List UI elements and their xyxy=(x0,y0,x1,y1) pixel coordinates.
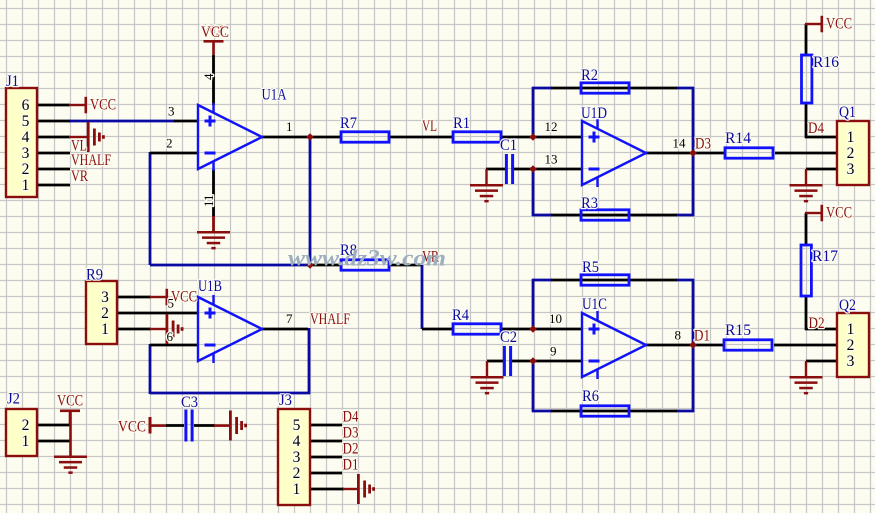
svg-text:U1B: U1B xyxy=(198,278,222,295)
svg-text:2: 2 xyxy=(166,135,173,150)
svg-text:R1: R1 xyxy=(453,115,470,132)
svg-text:VCC: VCC xyxy=(57,393,83,410)
svg-text:8: 8 xyxy=(675,327,682,342)
svg-text:D3: D3 xyxy=(343,425,359,442)
svg-text:2: 2 xyxy=(22,161,30,178)
svg-text:3: 3 xyxy=(101,289,109,306)
svg-text:14: 14 xyxy=(673,135,687,150)
svg-text:VL: VL xyxy=(422,118,437,135)
svg-text:1: 1 xyxy=(101,321,109,338)
svg-text:1: 1 xyxy=(22,177,30,194)
svg-text:U1C: U1C xyxy=(582,296,607,313)
svg-text:J2: J2 xyxy=(7,391,20,408)
svg-text:R16: R16 xyxy=(813,54,839,71)
svg-text:D4: D4 xyxy=(343,409,359,426)
svg-text:2: 2 xyxy=(847,145,855,162)
svg-text:2: 2 xyxy=(101,305,109,322)
svg-text:VCC: VCC xyxy=(118,419,146,436)
svg-text:VHALF: VHALF xyxy=(71,152,111,169)
svg-text:www.dz3w.com: www.dz3w.com xyxy=(288,246,446,271)
svg-text:Q2: Q2 xyxy=(839,297,856,314)
svg-text:1: 1 xyxy=(22,433,30,450)
svg-text:C3: C3 xyxy=(181,394,198,411)
svg-text:R17: R17 xyxy=(812,248,838,265)
svg-text:3: 3 xyxy=(22,145,30,162)
svg-text:6: 6 xyxy=(22,97,30,114)
svg-text:9: 9 xyxy=(550,343,557,358)
svg-text:1: 1 xyxy=(847,129,855,146)
svg-text:3: 3 xyxy=(293,449,301,466)
svg-text:D1: D1 xyxy=(694,327,710,344)
svg-text:12: 12 xyxy=(545,119,558,134)
svg-text:3: 3 xyxy=(847,161,855,178)
svg-text:D1: D1 xyxy=(343,457,359,474)
svg-text:R15: R15 xyxy=(725,322,751,339)
svg-text:5: 5 xyxy=(293,417,301,434)
svg-text:D2: D2 xyxy=(809,315,825,332)
svg-text:11: 11 xyxy=(201,194,216,207)
svg-text:D4: D4 xyxy=(808,120,824,137)
svg-text:D3: D3 xyxy=(695,135,711,152)
svg-text:2: 2 xyxy=(22,417,30,434)
svg-text:VCC: VCC xyxy=(90,97,116,114)
svg-text:R7: R7 xyxy=(340,115,357,132)
svg-text:C1: C1 xyxy=(500,137,517,154)
svg-text:R6: R6 xyxy=(582,388,599,405)
svg-text:R4: R4 xyxy=(452,307,469,324)
svg-text:R14: R14 xyxy=(725,130,751,147)
svg-text:1: 1 xyxy=(293,481,301,498)
svg-text:D2: D2 xyxy=(343,441,359,458)
svg-text:R5: R5 xyxy=(582,259,599,276)
svg-text:5: 5 xyxy=(168,295,175,310)
svg-text:1: 1 xyxy=(286,119,293,134)
svg-text:1: 1 xyxy=(847,321,855,338)
svg-text:VR: VR xyxy=(71,168,89,185)
svg-text:VHALF: VHALF xyxy=(310,311,350,328)
svg-text:7: 7 xyxy=(286,311,293,326)
svg-text:6: 6 xyxy=(167,329,174,344)
svg-text:4: 4 xyxy=(201,73,216,80)
svg-text:J3: J3 xyxy=(279,392,292,409)
svg-text:2: 2 xyxy=(847,337,855,354)
svg-text:R3: R3 xyxy=(581,195,598,212)
svg-text:U1A: U1A xyxy=(262,87,288,104)
svg-text:VCC: VCC xyxy=(201,24,229,41)
svg-text:Q1: Q1 xyxy=(839,104,856,121)
svg-text:J1: J1 xyxy=(6,73,19,90)
svg-text:3: 3 xyxy=(847,353,855,370)
svg-text:5: 5 xyxy=(22,113,30,130)
svg-text:U1D: U1D xyxy=(581,105,607,122)
svg-text:13: 13 xyxy=(545,151,558,166)
svg-text:VCC: VCC xyxy=(826,16,852,33)
svg-text:10: 10 xyxy=(549,311,562,326)
svg-text:4: 4 xyxy=(293,433,301,450)
svg-text:VCC: VCC xyxy=(171,289,197,306)
svg-text:3: 3 xyxy=(168,103,175,118)
svg-text:R9: R9 xyxy=(86,267,103,284)
svg-text:2: 2 xyxy=(293,465,301,482)
svg-text:VCC: VCC xyxy=(826,205,852,222)
svg-text:R2: R2 xyxy=(581,67,598,84)
svg-text:C2: C2 xyxy=(500,329,517,346)
svg-text:4: 4 xyxy=(22,129,30,146)
